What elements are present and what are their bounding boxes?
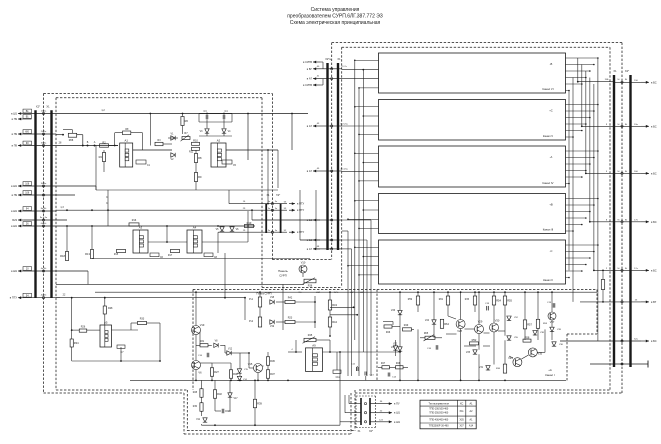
transistor V15	[254, 364, 263, 373]
svg-text:+В: +В	[549, 203, 553, 207]
svg-text:R17: R17	[168, 255, 173, 257]
resistor R28c vert	[200, 389, 203, 398]
connector X2*/X1 left bus bars	[34, 110, 36, 297]
diode V39	[550, 327, 554, 331]
bottom connector feed wires	[348, 395, 350, 404]
resistor R32 vert	[213, 390, 216, 399]
svg-text:КЮ: КЮ	[25, 131, 29, 134]
bottom-left wires	[201, 380, 203, 388]
resistor R57 vert	[523, 320, 526, 329]
svg-text:Панель: Панель	[278, 269, 288, 273]
resistor R10 R11 pair	[192, 142, 200, 145]
diode V4	[222, 129, 226, 133]
svg-text:R48: R48	[396, 363, 401, 365]
cap C5 below A2	[222, 160, 232, 164]
svg-text:Канал V: Канал V	[543, 134, 553, 138]
svg-text:в А7: в А7	[307, 124, 313, 128]
wire vertical drops from top rail	[247, 114, 249, 161]
svg-text:в Ш1: в Ш1	[11, 184, 17, 188]
svg-text:Канал II: Канал II	[543, 278, 553, 282]
middle IO в БГ @y=68.8	[313, 68, 320, 70]
svg-text:R44: R44	[332, 320, 337, 324]
svg-text:ХС: ХС	[460, 402, 464, 405]
lower right wires into connector	[580, 301, 614, 303]
bottom IO в Ш1 @y=421.8	[370, 421, 384, 423]
resistor R49 horiz	[403, 328, 412, 331]
svg-text:Тип выпрямителя: Тип выпрямителя	[428, 402, 449, 405]
left IO в Ш1 @y=271	[18, 270, 24, 272]
svg-text:V18: V18	[270, 297, 275, 299]
svg-text:R38: R38	[233, 372, 238, 376]
svg-text:А14: А14	[469, 425, 474, 428]
svg-text:R9: R9	[198, 175, 202, 179]
bottom IO в ПУ @y=403.6	[370, 403, 384, 405]
diode V36	[552, 342, 556, 346]
diode V2	[171, 153, 175, 157]
left IO в Ш1 @y=186	[18, 185, 24, 187]
connector X1/X2* small ptu bars	[265, 204, 267, 233]
svg-text:R32: R32	[217, 392, 222, 396]
svg-text:V17: V17	[234, 398, 239, 400]
resistor R33c vert	[473, 296, 476, 305]
wire to connector from subcircuit	[299, 411, 301, 425]
resistor R19	[245, 224, 254, 227]
table Тип выпрямителя	[420, 400, 476, 429]
diode V11	[203, 418, 207, 422]
rail 22 y=297.7	[56, 297, 245, 299]
transistor V30	[490, 323, 499, 332]
svg-text:4а 4б: 4а 4б	[41, 295, 47, 297]
svg-text:Канал III: Канал III	[543, 227, 554, 231]
diode V22b	[393, 346, 397, 350]
svg-text:А2: А2	[217, 139, 221, 143]
svg-text:в ПТУ: в ПТУ	[297, 202, 305, 206]
resistor R30 vert	[200, 403, 203, 412]
svg-text:Х11: Х11	[460, 410, 465, 413]
resistor R13	[90, 250, 93, 259]
dashed inner board boundary (Плата СУРП)	[56, 97, 262, 99]
svg-text:V29: V29	[478, 320, 483, 324]
svg-text:в П9: в П9	[12, 132, 18, 136]
resistor R36v	[266, 357, 269, 366]
svg-text:R37: R37	[270, 372, 275, 376]
left IO в П9 @y=145.5	[18, 145, 24, 147]
svg-text:Канал I: Канал I	[545, 373, 555, 377]
svg-text:Х1: Х1	[46, 105, 50, 109]
resistor R27	[210, 368, 213, 377]
svg-text:2б 2а: 2б 2а	[41, 131, 47, 133]
resistor R9	[194, 173, 197, 182]
resistor R55 vert	[503, 296, 506, 305]
rail y=284.4	[56, 283, 304, 285]
svg-text:R59: R59	[408, 299, 413, 301]
output lane long v6	[597, 58, 599, 341]
wire x88 down from y271	[87, 271, 89, 284]
transistor V37 with circle	[548, 312, 556, 320]
svg-text:в БТ: в БТ	[651, 300, 657, 304]
svg-text:Б23: Б23	[12, 218, 17, 222]
svg-text:3б 3а: 3б 3а	[41, 183, 47, 185]
svg-text:V12: V12	[228, 349, 233, 351]
wires cap/diode cluster	[199, 113, 232, 115]
transistor V19	[192, 326, 201, 335]
svg-text:R27: R27	[214, 370, 219, 374]
svg-text:V19: V19	[200, 323, 205, 327]
svg-text:R36: R36	[308, 285, 313, 288]
svg-text:в Ш1: в Ш1	[11, 269, 17, 273]
svg-text:9а 1,5а: 9а 1,5а	[40, 217, 48, 219]
cap C18	[486, 306, 488, 311]
svg-text:R47: R47	[381, 363, 386, 365]
ch1 mid wires	[195, 292, 197, 325]
svg-text:А3: А3	[139, 226, 143, 230]
svg-text:R2: R2	[102, 140, 106, 144]
svg-text:в ПТУ: в ПТУ	[297, 230, 305, 234]
svg-text:R54: R54	[496, 299, 501, 303]
svg-text:R57: R57	[527, 322, 532, 326]
svg-text:А1: А1	[124, 139, 128, 143]
svg-text:в ПУ: в ПУ	[394, 402, 400, 406]
svg-text:'Х2*: 'Х2*	[276, 194, 280, 197]
resistor R64 vert	[440, 319, 443, 328]
svg-text:V31: V31	[479, 367, 484, 369]
right IO в БС @y=82.3	[614, 81, 641, 83]
svg-text:Х2*а: Х2*а	[325, 57, 331, 61]
svg-text:V26: V26	[391, 310, 396, 312]
op-amp A9	[306, 348, 323, 372]
wire y346 links	[464, 345, 476, 347]
svg-text:106: 106	[25, 183, 30, 186]
middle IO в СУРВ @y=85	[313, 84, 320, 86]
resistor R23b	[285, 320, 295, 323]
svg-text:в П9: в П9	[12, 193, 18, 197]
potentiometer R36 board	[296, 280, 303, 282]
wire rail y=226	[56, 225, 255, 227]
cap C9	[221, 409, 223, 414]
junction dots on logic rails	[82, 145, 84, 147]
small connector IO в ПТУ @y=203.6	[266, 203, 287, 205]
svg-text:в БС: в БС	[651, 124, 657, 128]
svg-text:ТПЕ-100/100-460: ТПЕ-100/100-460	[429, 408, 449, 411]
output lane long v1	[572, 78, 574, 302]
series resistor R3 and wire x150.3	[149, 114, 151, 146]
jog wires SURV arrows	[320, 61, 323, 63]
op-amp A2 analog IC	[211, 143, 226, 167]
svg-text:R4: R4	[99, 155, 103, 159]
bottom connector X1/X2* box	[356, 395, 376, 397]
A9 wires	[288, 351, 302, 353]
svg-text:Схема электрическая принципиал: Схема электрическая принципиальная	[290, 20, 381, 26]
svg-text:ТПЕ-400/400-460: ТПЕ-400/400-460	[429, 418, 449, 421]
feedback pot R6' over A1	[115, 132, 123, 134]
diode V26	[398, 310, 402, 314]
small connector IO в ПТУ @y=232.2	[266, 231, 287, 233]
resistor R36b vert	[498, 368, 500, 370]
wires extra parts	[330, 306, 354, 308]
svg-text:R15: R15	[114, 254, 119, 256]
svg-text:R19: R19	[247, 221, 252, 225]
svg-text:15Б: 15Б	[605, 79, 609, 81]
middle IO в Ь1 @y=240	[313, 239, 320, 241]
small connector IO в ПТУ @y=210.2	[266, 209, 287, 211]
svg-text:+А: +А	[548, 368, 552, 372]
svg-text:в БС: в БС	[651, 268, 657, 272]
resistor R47	[382, 366, 390, 369]
diode V52	[507, 316, 511, 320]
wire A2 out right	[226, 149, 278, 151]
V24 wires	[433, 292, 435, 320]
diode V8	[214, 343, 218, 347]
svg-text:в П9: в П9	[12, 117, 18, 121]
svg-text:R65: R65	[424, 333, 429, 335]
resistor R44	[328, 317, 331, 327]
channel block Канал VI	[379, 53, 566, 93]
pot R7	[182, 137, 190, 140]
svg-text:в А7: в А7	[307, 247, 313, 251]
diode V24	[432, 320, 436, 324]
resistor R8	[194, 154, 197, 163]
svg-text:R58: R58	[525, 335, 530, 339]
logic IC A3	[133, 230, 148, 253]
connector X1/X2* right bus bars	[613, 75, 615, 367]
vertical joins right logic	[267, 150, 269, 204]
input wires jogs into lanes	[342, 219, 371, 221]
wire x96 down from y186	[95, 186, 97, 190]
bottom connector bars	[360, 398, 362, 425]
right IO в БТ @y=301.9	[614, 301, 641, 303]
resistor R59 vert	[416, 296, 419, 305]
svg-text:R68: R68	[69, 139, 74, 142]
channel I bottom rail	[130, 379, 566, 381]
connector X2*/X1 middle bus bars	[326, 63, 328, 250]
svg-text:R6: R6	[185, 119, 189, 123]
svg-text:R61: R61	[439, 299, 444, 301]
svg-text:ТПЕ2000Р 30-460: ТПЕ2000Р 30-460	[429, 425, 449, 428]
diode V13 pair	[237, 369, 241, 373]
transistor V34	[513, 358, 522, 367]
vertical joins down-left	[244, 298, 246, 320]
svg-text:0б 0б: 0б 0б	[41, 223, 47, 225]
svg-text:V19: V19	[270, 326, 275, 328]
right edge resistor R70	[601, 280, 604, 290]
svg-text:8а 8б: 8а 8б	[41, 208, 47, 210]
resistor R54 vert	[492, 296, 495, 305]
svg-text:в ПТУ: в ПТУ	[297, 208, 305, 212]
middle IO в А7 @y=126	[313, 125, 320, 127]
svg-text:-В: -В	[550, 62, 553, 66]
R61 wires	[447, 292, 449, 296]
svg-text:в Ш1: в Ш1	[394, 420, 400, 424]
svg-text:V28: V28	[457, 329, 462, 333]
svg-text:R46: R46	[386, 332, 391, 334]
resistor R59b vert	[536, 319, 539, 328]
cap C8	[204, 253, 213, 257]
svg-text:-А: -А	[550, 155, 553, 159]
resistor R38b	[229, 370, 232, 379]
ch1 right wires verticals	[417, 292, 419, 296]
svg-text:в П9: в П9	[12, 144, 18, 148]
channel I top rail	[95, 291, 597, 293]
svg-text:V30: V30	[495, 319, 500, 323]
middle IO в А7 @y=171	[313, 170, 320, 172]
svg-text:в БС: в БС	[651, 339, 657, 343]
svg-text:1б 1а: 1б 1а	[41, 111, 47, 113]
capacitor C3 group	[205, 115, 207, 120]
title block	[287, 7, 383, 26]
diode V3	[205, 129, 209, 133]
svg-text:3б 3а: 3б 3а	[41, 143, 47, 145]
left IO в П9 @y=195	[18, 194, 24, 196]
resistor R4 below A1 input	[102, 153, 105, 162]
transistor V28	[456, 320, 465, 329]
cap C19	[552, 303, 554, 308]
svg-text:ТПЕ-250/200-460: ТПЕ-250/200-460	[429, 411, 449, 414]
resistor R33	[138, 321, 147, 324]
middle IO в А7 @y=78.6	[313, 78, 320, 80]
cap C7	[117, 345, 125, 348]
svg-text:Канал VI: Канал VI	[543, 87, 554, 91]
svg-text:R55: R55	[507, 299, 512, 303]
svg-text:R45: R45	[308, 334, 313, 337]
resistor R43	[328, 300, 331, 310]
svg-text:106: 106	[25, 192, 30, 195]
junction dots channel I bottom rail	[195, 380, 197, 382]
diode V27b	[398, 347, 402, 351]
dashed box channel I board	[193, 289, 597, 291]
diode V12	[227, 351, 231, 355]
svg-text:R7: R7	[184, 131, 188, 135]
svg-text:R8: R8	[198, 156, 202, 160]
svg-text:в БС: в БС	[651, 171, 657, 175]
diode V18	[270, 300, 274, 304]
svg-text:в СУРВ: в СУРВ	[303, 83, 312, 87]
diode V38	[533, 331, 537, 335]
svg-text:R52: R52	[472, 338, 477, 342]
svg-text:4а 4б: 4а 4б	[41, 268, 47, 270]
right ground termination wire	[614, 363, 648, 365]
svg-text:R42: R42	[288, 297, 293, 300]
resistor R46 pot pair	[384, 325, 392, 328]
right IO в БС @y=341	[614, 340, 641, 342]
wire rail y=210.2	[56, 209, 266, 211]
block input stubs	[355, 59, 379, 61]
resistor R28 top of A5	[103, 306, 106, 314]
cap C12	[355, 367, 357, 371]
transistor V29	[475, 325, 484, 334]
svg-text:V24: V24	[425, 320, 430, 322]
cap C16	[206, 353, 208, 358]
output merge wires to right connector	[578, 81, 614, 83]
resistor R15	[117, 249, 126, 252]
junction dots misc	[71, 297, 73, 299]
svg-text:Х35: Х35	[459, 418, 464, 421]
resistor R34	[70, 339, 73, 347]
left IO в Ш1 @y=226	[18, 225, 24, 227]
svg-text:в БС: в БС	[651, 220, 657, 224]
svg-text:Канал IV: Канал IV	[543, 181, 554, 185]
output bus lane verticals	[577, 58, 579, 82]
middle IO в СУРВ @y=62	[313, 61, 320, 63]
resistor R6 series	[181, 117, 184, 126]
resistor R37	[266, 370, 269, 379]
logic IC A4	[187, 230, 202, 253]
wire rail y=258	[92, 258, 310, 260]
wires ch1 left cluster	[259, 292, 261, 297]
resistor R16	[129, 223, 139, 226]
svg-text:V25: V25	[466, 352, 471, 354]
channel block Канал III	[379, 194, 566, 234]
svg-text:в БГ: в БГ	[307, 67, 313, 71]
transistor V6	[192, 361, 201, 370]
left IO в ПТУ @y=297.7	[18, 297, 24, 299]
resistor R18	[65, 252, 68, 261]
wire y=220 from logic to mid connector	[252, 219, 320, 221]
diode V31	[486, 366, 490, 370]
right IO в БС @y=126.3	[614, 125, 641, 127]
capacitor C1 at A1 output	[136, 160, 146, 164]
svg-text:6б 5,5а: 6б 5,5а	[340, 123, 348, 125]
wire mid rail y=145.5 with label 28	[56, 145, 118, 147]
long bottom output wires	[598, 340, 614, 342]
svg-text:R36: R36	[270, 359, 275, 363]
wire y=232.2 feed small connector	[218, 231, 266, 233]
svg-text:Х2*: Х2*	[625, 69, 629, 73]
left input components Pч1 Pч2	[258, 297, 261, 307]
svg-text:R30: R30	[193, 406, 198, 408]
cap C16b	[435, 345, 437, 350]
svg-text:7б 7а: 7б 7а	[341, 66, 347, 68]
svg-text:в Ш1: в Ш1	[11, 224, 17, 228]
svg-text:V15: V15	[248, 362, 253, 366]
middle IO в А7 @y=248.9	[313, 248, 320, 250]
ch1 horizontal links	[340, 351, 400, 353]
diode V19d	[270, 320, 274, 324]
rail y=190 lower	[96, 189, 278, 191]
diode V6 pair	[230, 227, 234, 231]
svg-text:R39: R39	[257, 402, 262, 406]
input bus lane verticals	[347, 231, 349, 376]
svg-text:-С: -С	[550, 249, 553, 253]
svg-text:в А7: в А7	[307, 169, 313, 173]
wire top rail y=113.5	[56, 113, 308, 115]
right IO в БС @y=173.4	[614, 172, 641, 174]
diode V5	[220, 227, 224, 231]
svg-text:Х37: Х37	[459, 425, 464, 428]
cap C14	[387, 373, 389, 377]
svg-text:в Ш1: в Ш1	[394, 411, 400, 415]
svg-text:V10: V10	[301, 261, 306, 265]
svg-text:R33: R33	[465, 299, 470, 301]
left IO в Ш1 @y=113.5	[18, 113, 24, 115]
svg-text:R31: R31	[200, 341, 205, 343]
svg-text:R64: R64	[444, 322, 449, 326]
svg-text:в А7: в А7	[307, 77, 313, 81]
middle IO в Ь1 @y=220	[313, 219, 320, 221]
potentiometer R68	[56, 134, 64, 136]
cap C13	[364, 372, 366, 376]
svg-text:R34: R34	[74, 341, 79, 345]
bottom IO в Ш1 @y=412.7	[370, 412, 384, 414]
wire A1 output to right y=150	[133, 149, 172, 151]
connector direct wires to blocks	[342, 69, 379, 71]
enclosing thin box around logic row1	[60, 107, 308, 207]
svg-text:V35: V35	[537, 351, 542, 355]
diode V14 pair	[237, 376, 241, 380]
resistor R26	[79, 329, 87, 332]
wire y=203.6 feed small connector	[229, 203, 266, 205]
svg-text:Система управления: Система управления	[311, 7, 360, 13]
svg-text:R49: R49	[404, 324, 409, 327]
